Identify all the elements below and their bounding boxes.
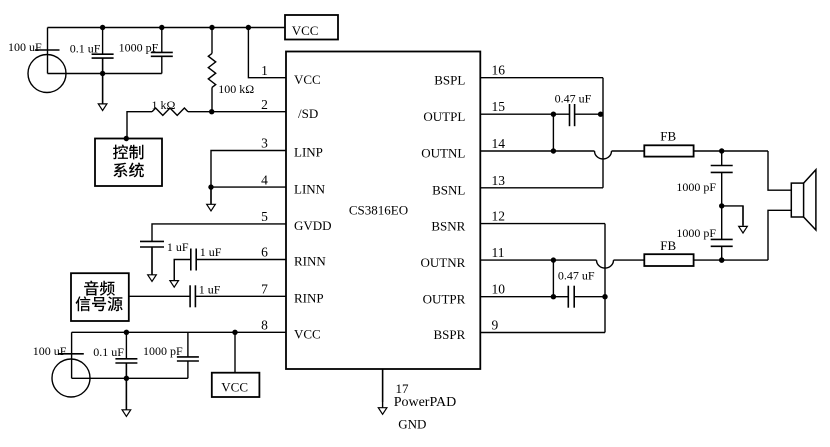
svg-text:BSNL: BSNL [432, 183, 465, 198]
svg-text:4: 4 [261, 172, 268, 187]
svg-text:2: 2 [261, 97, 268, 112]
svg-text:1000 pF: 1000 pF [676, 226, 716, 240]
svg-text:VCC: VCC [292, 23, 319, 38]
svg-text:1: 1 [261, 63, 268, 78]
svg-text:14: 14 [492, 136, 506, 151]
svg-text:GVDD: GVDD [294, 218, 332, 233]
svg-text:6: 6 [261, 245, 268, 260]
svg-text:0.1 uF: 0.1 uF [70, 41, 101, 55]
svg-text:FB: FB [660, 238, 676, 253]
svg-text:VCC: VCC [294, 327, 321, 342]
svg-text:16: 16 [492, 63, 506, 78]
svg-text:12: 12 [492, 209, 506, 224]
svg-text:100 kΩ: 100 kΩ [218, 82, 254, 96]
svg-text:CS3816EO: CS3816EO [349, 203, 408, 218]
svg-text:RINN: RINN [294, 254, 326, 269]
svg-text:BSPL: BSPL [434, 72, 465, 87]
svg-text:0.47 uF: 0.47 uF [555, 92, 592, 106]
svg-text:0.47 uF: 0.47 uF [558, 269, 595, 283]
svg-text:100 uF: 100 uF [33, 344, 67, 358]
svg-text:1000 pF: 1000 pF [676, 180, 716, 194]
svg-text:GND: GND [398, 417, 426, 432]
svg-text:VCC: VCC [294, 72, 321, 87]
svg-text:1 uF: 1 uF [167, 240, 189, 254]
svg-text:1000 pF: 1000 pF [143, 344, 183, 358]
svg-text:13: 13 [492, 173, 506, 188]
svg-text:OUTNR: OUTNR [421, 255, 466, 270]
svg-text:OUTNL: OUTNL [421, 146, 465, 161]
svg-text:9: 9 [492, 318, 499, 333]
svg-text:17: 17 [396, 381, 410, 396]
svg-text:OUTPR: OUTPR [423, 291, 466, 306]
svg-text:PowerPAD: PowerPAD [394, 395, 457, 410]
svg-text:7: 7 [261, 282, 268, 297]
svg-text:LINN: LINN [294, 181, 326, 196]
svg-text:1 uF: 1 uF [200, 245, 222, 259]
svg-text:BSPR: BSPR [433, 327, 465, 342]
svg-text:LINP: LINP [294, 145, 323, 160]
svg-text:10: 10 [492, 282, 506, 297]
svg-text:1 kΩ: 1 kΩ [152, 98, 176, 112]
svg-text:5: 5 [261, 209, 268, 224]
svg-text:BSNR: BSNR [431, 218, 465, 233]
svg-text:15: 15 [492, 99, 506, 114]
svg-text:8: 8 [261, 318, 268, 333]
svg-text:VCC: VCC [221, 379, 248, 394]
svg-text:1 uF: 1 uF [199, 283, 221, 297]
svg-text:FB: FB [660, 129, 676, 144]
svg-text:OUTPL: OUTPL [423, 109, 465, 124]
svg-text:/SD: /SD [298, 106, 318, 121]
svg-text:0.1 uF: 0.1 uF [93, 345, 124, 359]
svg-text:RINP: RINP [294, 291, 324, 306]
svg-text:11: 11 [492, 245, 505, 260]
svg-text:1000 pF: 1000 pF [119, 41, 159, 55]
svg-text:100 uF: 100 uF [8, 40, 42, 54]
svg-text:3: 3 [261, 136, 268, 151]
